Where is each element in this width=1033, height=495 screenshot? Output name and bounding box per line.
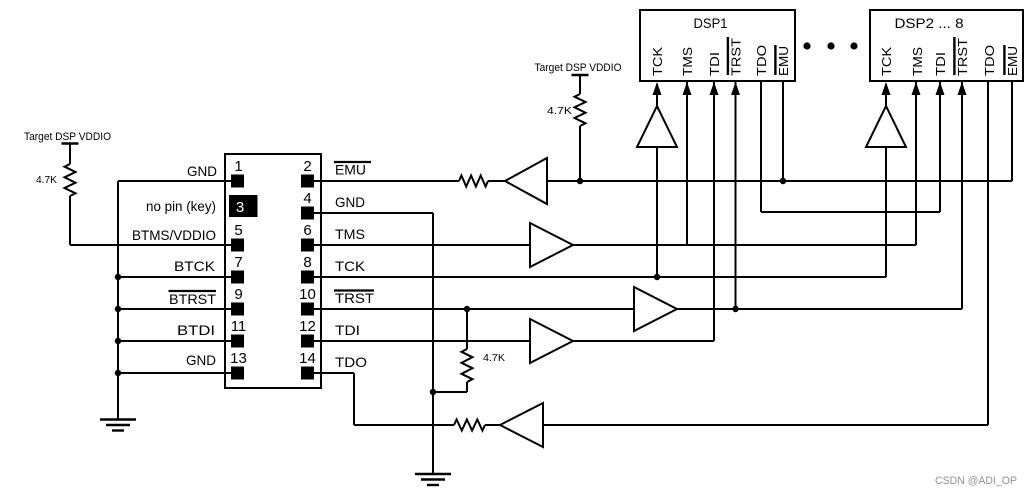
- ground (bottom middle): [415, 473, 451, 475]
- wire GND pin13: [118, 372, 237, 374]
- node junction EMU pull-up: [577, 178, 583, 184]
- node junction GND pin13: [115, 370, 121, 376]
- svg-text:3: 3: [236, 199, 244, 216]
- pin DSP1 TMS: [680, 47, 695, 76]
- pin 3 key (no pin): [229, 195, 258, 217]
- wire: [579, 75, 581, 94]
- svg-text:GND: GND: [187, 163, 217, 179]
- wire ground bus (left): [117, 181, 119, 419]
- pin 14 pad: [301, 367, 314, 380]
- svg-text:11: 11: [231, 318, 247, 335]
- svg-text:GND: GND: [335, 194, 365, 210]
- svg-text:12: 12: [299, 318, 316, 335]
- pin 5 pad: [231, 239, 244, 252]
- svg-text:6: 6: [303, 222, 311, 239]
- svg-text:BTCK: BTCK: [174, 258, 216, 274]
- wire DSP2 TRST riser: [961, 81, 963, 309]
- svg-text:GND: GND: [186, 352, 216, 368]
- svg-text:TRST: TRST: [335, 290, 374, 306]
- svg-text:Target DSP VDDIO: Target DSP VDDIO: [535, 62, 622, 74]
- wire EMU from pin2: [307, 180, 459, 182]
- wire: [579, 126, 581, 181]
- pin DSP1 TDI: [707, 52, 722, 76]
- svg-text:no pin (key): no pin (key): [146, 198, 216, 214]
- svg-text:TDI: TDI: [933, 52, 948, 76]
- arrow into DSP2 TRST: [958, 82, 967, 95]
- pin DSP2 TMS: [910, 47, 925, 76]
- svg-text:DSP2 ... 8: DSP2 ... 8: [895, 15, 964, 31]
- wire: [656, 84, 658, 106]
- chip DSP1: [640, 10, 795, 81]
- svg-text:4.7K: 4.7K: [483, 353, 505, 364]
- svg-text:TMS: TMS: [680, 47, 695, 76]
- svg-text:1: 1: [234, 158, 242, 175]
- svg-text:BTMS/VDDIO: BTMS/VDDIO: [132, 227, 216, 243]
- wire GND from pin4: [307, 212, 433, 214]
- node junction BTRST: [115, 306, 121, 312]
- wire DSP1 TDO to DSP2 TDI: [760, 81, 762, 212]
- pin 4 pad: [301, 207, 314, 220]
- pin DSP2 TRST: [954, 37, 970, 76]
- node junction DSP1 TCK: [654, 274, 660, 280]
- wire TDO from pin14: [307, 372, 354, 374]
- pin DSP2 TDI: [933, 52, 948, 76]
- pin 2 pad: [301, 175, 314, 188]
- svg-text:CSDN @ADI_OP: CSDN @ADI_OP: [935, 475, 1017, 487]
- wire TDI from pin12: [307, 340, 530, 342]
- pin 10 pad: [301, 303, 314, 316]
- svg-text:EMU: EMU: [1005, 46, 1020, 76]
- wire BTCK: [118, 276, 237, 278]
- svg-text:TMS: TMS: [910, 47, 925, 76]
- arrow into DSP1 TDI: [710, 82, 719, 95]
- svg-text:BTRST: BTRST: [169, 291, 216, 307]
- buffer U3 (DSP1 TCK): [637, 106, 677, 147]
- svg-text:7: 7: [234, 254, 242, 271]
- svg-text:TDO: TDO: [754, 45, 769, 76]
- svg-text:TRST: TRST: [728, 38, 743, 76]
- wire TRST to DSPs: [677, 308, 962, 310]
- svg-text:TCK: TCK: [650, 47, 665, 76]
- wire DSP2 TCK riser: [885, 147, 887, 277]
- pin DSP1 TDO: [754, 45, 769, 76]
- wire BTRST: [118, 308, 237, 310]
- node junction BTDI: [115, 338, 121, 344]
- wire BTDI: [118, 340, 237, 342]
- pin DSP1 TCK: [650, 47, 665, 76]
- wire EMU bus to DSPs: [547, 180, 1012, 182]
- arrow into DSP2 TMS: [912, 82, 921, 95]
- wire: [466, 382, 468, 392]
- buffer U4 (DSP2 TCK): [866, 106, 906, 147]
- svg-text:TCK: TCK: [879, 47, 894, 76]
- wire TMS to DSPs: [573, 244, 916, 246]
- wire DSP1 TMS riser: [686, 81, 688, 245]
- pin DSP2 EMU: [1004, 45, 1020, 76]
- buffer U7 (TDO, drives left): [500, 403, 543, 447]
- wire BTMS/VDDIO: [70, 244, 237, 246]
- svg-text:4: 4: [303, 190, 311, 207]
- svg-text:10: 10: [299, 286, 316, 303]
- wire: [69, 144, 71, 165]
- buffer U6 (TDI): [530, 319, 573, 363]
- pin DSP1 EMU: [775, 45, 791, 76]
- wire TRST from pin10: [307, 308, 634, 310]
- node junction pull-down to ground: [430, 389, 436, 395]
- resistor 4.7K (EMU pull-up): [575, 94, 586, 126]
- svg-text:DSP1: DSP1: [694, 15, 728, 31]
- wire: [69, 196, 71, 245]
- pin 11 pad: [231, 335, 244, 348]
- resistor 4.7K (TRST pull-down): [466, 309, 468, 349]
- svg-text:TCK: TCK: [335, 258, 366, 274]
- pin 8 pad: [301, 271, 314, 284]
- wire DSP2 EMU riser: [1011, 81, 1013, 181]
- wire TDI to DSP1: [573, 340, 714, 342]
- pin 13 pad: [231, 367, 244, 380]
- svg-text:EMU: EMU: [776, 46, 791, 76]
- pin 1 pad: [231, 175, 244, 188]
- wire TMS from pin6: [307, 244, 530, 246]
- svg-text:TRST: TRST: [955, 38, 970, 76]
- svg-text:TDI: TDI: [707, 52, 722, 76]
- wire TCK from pin8: [307, 276, 886, 278]
- node junction BTCK: [115, 274, 121, 280]
- chip DSP2 ... 8: [870, 10, 1023, 81]
- arrow into DSP1 TCK: [653, 82, 662, 95]
- wire GND pin1: [118, 180, 237, 182]
- svg-text:2: 2: [303, 158, 311, 175]
- resistor 4.7K (left pull-up): [65, 164, 76, 196]
- pin 12 pad: [301, 335, 314, 348]
- arrow into DSP2 TCK: [882, 82, 891, 95]
- svg-text:BTDI: BTDI: [177, 322, 215, 338]
- resistor (EMU series): [459, 176, 488, 187]
- buffer U5 (TRST): [634, 287, 677, 331]
- svg-text:EMU: EMU: [335, 162, 366, 178]
- pin DSP2 TDO: [982, 45, 997, 76]
- svg-text:14: 14: [299, 350, 316, 367]
- resistor (TDO series): [454, 420, 485, 431]
- svg-text:TDI: TDI: [335, 322, 360, 338]
- wire DSP2 TMS riser: [915, 81, 917, 245]
- svg-text:TMS: TMS: [335, 226, 365, 242]
- pin DSP1 TRST: [728, 37, 744, 76]
- svg-text:4.7K: 4.7K: [547, 106, 572, 117]
- pin 6 pad: [301, 239, 314, 252]
- wire DSP1 EMU drop: [782, 81, 784, 181]
- wire: [485, 424, 500, 426]
- ground (left): [100, 418, 136, 420]
- svg-text:13: 13: [230, 350, 247, 367]
- wire DSP1 TCK riser: [656, 147, 658, 277]
- svg-text:Target DSP VDDIO: Target DSP VDDIO: [24, 131, 111, 143]
- svg-text:TDO: TDO: [335, 354, 367, 370]
- connector J1 14-pin JTAG header: [225, 154, 321, 388]
- svg-text:8: 8: [303, 254, 311, 271]
- node junction TRST pull-down: [464, 306, 470, 312]
- pin DSP2 TCK: [879, 47, 894, 76]
- wire DSP1 TRST riser: [735, 81, 737, 309]
- svg-text:5: 5: [234, 222, 242, 239]
- arrow into DSP1 TMS: [683, 82, 692, 95]
- arrow into DSP1 TRST: [731, 82, 740, 95]
- pin 7 pad: [231, 271, 244, 284]
- buffer U2 (TMS): [530, 223, 573, 267]
- wire TDO return from DSP2: [543, 424, 988, 426]
- node ellipsis (DSP1 ... DSP8): [803, 42, 810, 49]
- node junction DSP1 TRST: [732, 306, 738, 312]
- buffer U1 (EMU, drives left): [505, 158, 547, 204]
- wire: [885, 84, 887, 106]
- wire: [488, 180, 505, 182]
- svg-text:4.7K: 4.7K: [36, 175, 57, 186]
- node junction DSP1 EMU: [780, 178, 786, 184]
- svg-text:9: 9: [234, 286, 242, 303]
- wire DSP1 TDI riser: [713, 81, 715, 341]
- pin 9 pad: [231, 303, 244, 316]
- svg-text:TDO: TDO: [982, 45, 997, 76]
- arrow into DSP2 TDI: [936, 82, 945, 95]
